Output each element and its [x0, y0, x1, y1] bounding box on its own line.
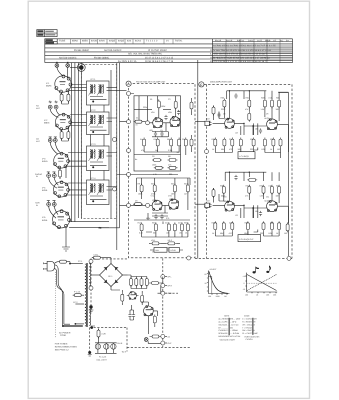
wire tube V2 to IF can2 [69, 115, 87, 126]
connector circle c1 [205, 150, 209, 154]
capacitor C35 [132, 313, 135, 318]
resistor R83 [153, 315, 156, 325]
svg-text:117V: 117V [73, 301, 78, 304]
pilot lamp PL1 [95, 344, 100, 349]
svg-text:C13: C13 [178, 222, 181, 225]
svg-text:PL = PILOT LAMP: PL = PILOT LAMP [242, 332, 258, 335]
dipole antenna bars pair1 [49, 101, 58, 103]
svg-text:25 47 12 5.6 1.2 47 3.3 15: 25 47 12 5.6 1.2 47 3.3 15 [145, 56, 174, 59]
svg-text:6AU6: 6AU6 [91, 40, 98, 43]
resistor R62 [222, 185, 225, 195]
right dashed enclosure [204, 84, 292, 258]
svg-text:2.5V-R: 2.5V-R [117, 342, 123, 345]
wire ant2 to tube V1 [67, 67, 69, 78]
svg-text:PWR: PWR [265, 40, 271, 43]
resistor R67 small [212, 188, 215, 198]
resistor R4 below V2 [67, 130, 70, 140]
wire to terminals [158, 277, 163, 294]
resistor R18 outside box [184, 138, 187, 148]
junction circle strip b [113, 187, 117, 191]
legend table right [242, 315, 260, 342]
resistor R19 oval [152, 159, 162, 162]
svg-text:R1: R1 [150, 98, 152, 101]
capacitor C44 [234, 93, 237, 98]
cord to transformer wires [62, 324, 82, 326]
resistor R70 [222, 221, 225, 231]
svg-text:7 1 1 1 1 2: 7 1 1 1 1 2 [146, 40, 158, 43]
svg-text:220K: 220K [221, 108, 226, 111]
AC switch SW1 [58, 260, 68, 263]
wire bridge left [91, 274, 100, 276]
junction dot AF [100, 227, 102, 229]
capacitor C63 [259, 211, 262, 216]
svg-text:6BA6: 6BA6 [72, 40, 78, 43]
svg-text:2.2M: 2.2M [168, 149, 173, 152]
tube U2a [152, 200, 162, 210]
svg-text:-10: -10 [243, 288, 246, 291]
tube V2 6BE6 converter [56, 113, 72, 130]
label above middle box [136, 81, 166, 84]
svg-text:150K: 150K [152, 164, 157, 167]
svg-text:R33: R33 [276, 185, 279, 188]
svg-text:TUBE: TUBE [59, 40, 66, 43]
svg-text:FM 88-108MC: FM 88-108MC [94, 56, 110, 59]
lamp labels [97, 356, 108, 362]
bias box ch1 [238, 152, 255, 159]
svg-text:IN RECONNECTIONS: IN RECONNECTIONS [55, 346, 78, 349]
junction dot dashed cross [90, 326, 93, 329]
wires ch2 bottom [215, 231, 279, 236]
legend divider marks right [252, 318, 254, 335]
lamp dashed drop [126, 328, 128, 352]
svg-text:C3: C3 [168, 98, 170, 101]
terminal T2 [161, 284, 167, 288]
svg-text:MAIN AMPLIFIER UNIT: MAIN AMPLIFIER UNIT [210, 81, 233, 84]
svg-text:6CA4: 6CA4 [135, 40, 142, 43]
svg-text:FOR TONES: FOR TONES [55, 343, 68, 346]
legend divider marks left [228, 318, 230, 336]
tube U1a [153, 117, 163, 127]
svg-text:1V: 1V [166, 40, 169, 43]
lamp stubs [98, 343, 114, 354]
svg-text:R32: R32 [260, 185, 263, 188]
svg-text:R23: R23 [276, 96, 279, 99]
svg-text:C25: C25 [269, 185, 272, 188]
wires below V2 [62, 128, 69, 141]
resistor R49 [214, 138, 217, 148]
music note mark 2 [266, 266, 271, 273]
svg-text:VR-1: VR-1 [151, 239, 155, 242]
wire stage2 [142, 192, 188, 210]
loudness control box [169, 248, 180, 253]
svg-text:V9: V9 [266, 113, 268, 116]
resistor R14 [143, 138, 146, 148]
V5 label [42, 216, 48, 222]
svg-text:1M: 1M [184, 193, 187, 196]
wire bridge right [123, 274, 129, 276]
connector circle p1 [89, 259, 93, 263]
resistor R63 [248, 185, 251, 195]
svg-text:R12: R12 [184, 183, 187, 186]
dashed bottom bus left [93, 257, 207, 260]
terminal T1 [161, 275, 167, 279]
connector circle a4 [127, 203, 131, 207]
svg-text:10.7MC 455KC 10.7MC 455KC 98.6: 10.7MC 455KC 10.7MC 455KC 98.6 455 10.7 … [213, 45, 276, 48]
svg-text:AM 535-1605KC: AM 535-1605KC [104, 49, 122, 52]
svg-text:R.CH 6AQ5 OUT: R.CH 6AQ5 OUT [239, 238, 254, 241]
svg-text:C17: C17 [229, 138, 232, 141]
wire tube V1 to IF can1 [69, 85, 87, 91]
capacitor C41 [217, 112, 220, 117]
svg-text:C = CAPACITOR: C = CAPACITOR [242, 318, 257, 321]
bias box ch2 [238, 235, 261, 242]
svg-text:R15: R15 [152, 222, 155, 225]
svg-text:100K: 100K [138, 193, 143, 196]
ch2 top bus [225, 172, 279, 181]
ground symbol power [89, 307, 94, 313]
svg-text:0: 0 [244, 282, 245, 285]
note text block [55, 343, 78, 352]
resistor R24 [153, 183, 156, 193]
wire control boxes [150, 249, 183, 251]
wires below V3 [60, 167, 66, 179]
lamp label right [117, 342, 123, 345]
resistor R84 oval [151, 335, 161, 338]
stage1 bus wires [134, 96, 181, 155]
wire pair2 to V3 [50, 142, 60, 154]
svg-text:B+ 250V 6.3V 3A: B+ 250V 6.3V 3A [118, 60, 137, 63]
table row1 tick separators [71, 39, 174, 43]
wire filter caps top [128, 275, 147, 279]
svg-text:AC POWER: AC POWER [59, 331, 71, 334]
resistor R76 far right [286, 222, 289, 232]
tube U2b [169, 199, 179, 209]
resistor R25 [173, 183, 176, 193]
tube V5 6AV6 AF amp [53, 210, 71, 229]
pilot lamp PL2 [104, 344, 109, 349]
graph selectivity curve [209, 272, 228, 294]
table outer lines [45, 39, 293, 63]
svg-text:C15: C15 [269, 96, 272, 99]
svg-text:R21: R21 [246, 96, 249, 99]
svg-text:12AX7: 12AX7 [169, 198, 175, 201]
FM ANT label [36, 105, 41, 110]
svg-text:R8: R8 [168, 155, 170, 158]
wire V13 [141, 302, 158, 334]
svg-text:R22: R22 [261, 96, 264, 99]
output resistor R82 [150, 282, 160, 285]
wire stage1 [159, 108, 176, 118]
resistor R17 [178, 138, 181, 148]
svg-text:VR = VOLUME: VR = VOLUME [242, 323, 256, 326]
node marker A [126, 81, 131, 86]
svg-text:.01: .01 [160, 129, 163, 132]
wire stage2 couple [131, 175, 179, 217]
TAPE label [35, 202, 41, 207]
svg-text:6AL5: 6AL5 [153, 119, 157, 122]
svg-text:CORD: CORD [60, 334, 67, 337]
connector circle c2 [205, 204, 209, 208]
svg-text:150: 150 [277, 148, 280, 151]
tube U3 [225, 118, 235, 128]
power transformer T1 [78, 260, 91, 327]
resistor R42 [248, 99, 251, 109]
svg-text:IF 10.7MC 455KC: IF 10.7MC 455KC [148, 49, 167, 52]
IF can IFT-2 [87, 109, 117, 135]
resistor R12 [174, 100, 177, 110]
svg-text:R4: R4 [140, 138, 142, 141]
resistor R28 [140, 222, 143, 232]
table row 3 text [74, 49, 272, 52]
resistor R18b [190, 101, 193, 111]
speaker terminal strip dashed [162, 258, 164, 347]
bridge rectifier D1-D4 [100, 264, 123, 287]
IF strip dashed enclosure [81, 65, 116, 219]
wire switch to transformer [55, 262, 83, 264]
ch2 extra wires [219, 172, 288, 234]
svg-text:LOUD: LOUD [171, 249, 177, 252]
tube V4 6AV6 [54, 181, 70, 198]
svg-text:IFT-2: IFT-2 [91, 109, 97, 112]
tube V1 6BA6 FM RF [55, 75, 72, 93]
resistor R65 [271, 185, 274, 195]
junction dot [98, 227, 100, 229]
svg-text:20: 20 [205, 282, 207, 285]
right sub-table grid [213, 39, 293, 63]
AC POWER label [59, 331, 71, 337]
svg-text:PL-1,2,3: PL-1,2,3 [99, 356, 106, 359]
svg-text:R31: R31 [246, 185, 249, 188]
resistor R26 [186, 183, 189, 193]
svg-text:R6: R6 [167, 138, 169, 141]
svg-text:BAL: BAL [156, 249, 160, 252]
svg-text:1M: 1M [155, 149, 158, 152]
table row 6 text [118, 60, 268, 63]
resistor R71 [231, 221, 234, 231]
svg-text:F-1 2A: F-1 2A [74, 291, 81, 294]
svg-text:R38: R38 [270, 222, 273, 225]
balance control box [154, 248, 167, 253]
filter capacitor C31 [135, 277, 138, 287]
connector circle a3 [127, 173, 131, 177]
resistor R35 oval [166, 242, 176, 245]
capacitor C11 [177, 110, 180, 115]
stage2 labels [135, 183, 188, 254]
wire caps [130, 305, 134, 320]
resistor R5 below V3 [59, 169, 62, 179]
stage2 extra wires [134, 178, 190, 232]
resistor R72 [246, 221, 249, 231]
svg-text:V11: V11 [266, 196, 269, 199]
svg-text:R10: R10 [151, 183, 154, 186]
AC plug P1 [44, 261, 55, 271]
svg-text:R16: R16 [184, 222, 187, 225]
svg-text:117V 60c 75W 2A 25 470 120 56: 117V 60c 75W 2A 25 470 120 56 1.2 470 33… [210, 49, 272, 52]
svg-text:V8: V8 [223, 113, 225, 116]
tube U5 [225, 201, 235, 211]
capacitor C34 [128, 313, 131, 318]
resistor R74 [271, 221, 274, 231]
svg-text:AM 540-1600KC: AM 540-1600KC [59, 56, 77, 59]
input capacitor C42 [208, 121, 211, 126]
svg-text:R35: R35 [212, 222, 215, 225]
wires ch2 mid [213, 205, 289, 218]
connector circle a2 [127, 120, 131, 124]
svg-text:GND: GND [168, 292, 173, 295]
resistor R61 oval top [247, 178, 257, 181]
choke CH1 [92, 253, 102, 259]
resistor R50 [223, 138, 226, 148]
filter capacitor C30 [130, 277, 133, 287]
svg-text:500: 500 [177, 151, 180, 154]
V3 label [42, 158, 48, 164]
junction on right bottom dashed [287, 256, 291, 260]
wire pair3 to V4 [49, 178, 59, 189]
tape terminal pair3 [47, 174, 57, 178]
IF can IFT-3 [87, 143, 117, 171]
svg-text:IFT-1: IFT-1 [91, 78, 97, 81]
wire V5 down to ground [62, 227, 70, 247]
wire middle box to right box ch1 [195, 121, 205, 123]
wire filter caps bottom [131, 285, 147, 288]
svg-text:C9: C9 [135, 200, 137, 203]
svg-text:B+ ............. 250V: B+ ............. 250V [218, 326, 233, 329]
svg-text:SEL VOL BAL BASS TREB AFC: SEL VOL BAL BASS TREB AFC [128, 53, 162, 56]
stage1 labels [135, 98, 184, 176]
svg-text:R28: R28 [270, 138, 273, 141]
junction dot cord [62, 325, 64, 327]
resistor R29 [154, 222, 157, 232]
aux terminal pair4 [47, 202, 57, 206]
resistor R27 input oval [133, 203, 143, 206]
svg-text:HT: HT [273, 40, 277, 43]
AC cord pair [55, 265, 64, 326]
wire bus b [74, 66, 76, 222]
node marker C [199, 82, 204, 87]
svg-text:SEE PAGE 12: SEE PAGE 12 [55, 349, 70, 352]
horizontal dashed to terminals [127, 346, 190, 348]
resistor R53 [252, 138, 255, 148]
svg-text:6AV6: 6AV6 [170, 118, 174, 121]
svg-text:R20: R20 [221, 96, 224, 99]
music note mark 1 [253, 267, 259, 274]
V2 label [44, 119, 50, 125]
junction dots amp [229, 90, 254, 209]
svg-text:100: 100 [255, 128, 258, 131]
junction circle j2 [146, 203, 150, 207]
V4 label [42, 186, 48, 192]
svg-text:.05: .05 [179, 232, 182, 235]
C-29 label [102, 333, 106, 336]
label above right box [210, 81, 233, 84]
svg-text:R27: R27 [250, 138, 253, 141]
socket circle s1 [144, 338, 148, 342]
filter capacitor C32 [140, 277, 143, 287]
tap bottom [75, 323, 84, 325]
svg-text:NOTE: NOTE [224, 315, 230, 318]
stage1 inner solid box [134, 96, 181, 171]
svg-text:220: 220 [260, 232, 263, 235]
wire bottom row [149, 243, 180, 251]
svg-text:12AX7: 12AX7 [224, 200, 230, 203]
wire choke bridge [92, 258, 111, 264]
resistor R23 [140, 183, 143, 193]
svg-text:470: 470 [229, 232, 232, 235]
wire can3-can4 links [91, 171, 105, 181]
resistor R45 [278, 99, 281, 109]
IF can IFT-4 [87, 177, 117, 205]
terminal T5 [161, 341, 167, 345]
resistor R11 [157, 99, 160, 109]
svg-text:TOTAL: TOTAL [175, 40, 183, 43]
pilot lamp PL3 [111, 344, 116, 349]
wires ch2 upper [214, 185, 280, 203]
middle dashed enclosure [129, 84, 196, 258]
tone control curves [247, 275, 277, 291]
svg-text:220K: 220K [221, 195, 226, 198]
tube U6 [267, 200, 278, 211]
svg-text:R25: R25 [212, 138, 215, 141]
wire can1 line to box [112, 91, 134, 94]
svg-text:6AV6: 6AV6 [42, 189, 48, 192]
resistor R32 [181, 222, 184, 232]
wire dot horiz [70, 67, 77, 69]
capacitor C13 [160, 131, 163, 136]
svg-text:DISC: DISC [248, 40, 254, 43]
dipole bars pair3 [47, 172, 56, 174]
svg-text:R14: R14 [138, 222, 141, 225]
lamp rail top [95, 329, 117, 354]
wire R18b/c [191, 98, 193, 152]
resistor R1 below V1 [60, 93, 63, 103]
resistor R22 oval [168, 166, 178, 169]
svg-text:R9: R9 [138, 183, 140, 186]
svg-text:FM 88-108MC: FM 88-108MC [74, 49, 90, 52]
svg-text:.047: .047 [206, 200, 210, 203]
graph selectivity axes [205, 268, 230, 298]
svg-text:150: 150 [284, 232, 287, 235]
ground under V5 [64, 249, 69, 251]
tube V12 regulator [129, 292, 137, 300]
wire bus c [77, 66, 79, 218]
svg-text:C-29: C-29 [102, 333, 106, 336]
tap label [73, 301, 78, 304]
wire table drop bus [72, 63, 82, 66]
wire pair1 to V2 [50, 109, 60, 117]
svg-text:PARTS IDENTIFI-: PARTS IDENTIFI- [245, 336, 261, 339]
junction circle strip a [113, 138, 117, 142]
input capacitor C62 [208, 203, 211, 208]
wire stage2 top bus [137, 178, 191, 185]
wire can2-can3 links [91, 135, 105, 147]
resistor R41 [223, 99, 226, 109]
wire tube V4 to IF can4 [67, 183, 87, 195]
svg-text:6BE6: 6BE6 [44, 122, 50, 125]
wire V1 cathode down [62, 91, 69, 104]
tube V3 6AU6 [54, 152, 70, 169]
table row 5 text [59, 56, 270, 59]
dashed power ground drop [89, 328, 91, 351]
svg-text:.02: .02 [166, 232, 169, 235]
resistor R44 [271, 99, 274, 109]
dipole bars pair2 [49, 137, 57, 139]
wire ant1 to tube V1 grid [57, 67, 63, 75]
graph tone control axes [243, 273, 278, 297]
resistor R56 [279, 138, 282, 148]
FM antenna terminal 2 [66, 63, 70, 68]
capacitor C14 [164, 115, 167, 120]
wire tube V3 to IF can3 [67, 153, 87, 167]
